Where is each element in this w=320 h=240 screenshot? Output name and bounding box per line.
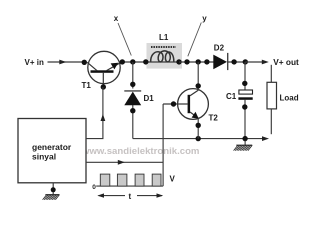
inductor L1	[146, 43, 182, 69]
svg-text:0: 0	[92, 184, 96, 191]
diode D1	[124, 91, 141, 105]
junction: T2 collector node on rail	[196, 59, 201, 64]
node y junction	[184, 59, 189, 64]
capacitor C1	[238, 90, 252, 100]
pulse 2	[117, 174, 127, 186]
junction: T2 emitter on rail	[196, 136, 201, 141]
transistor T2	[178, 62, 209, 139]
junction: C1/ground on rail	[242, 136, 247, 141]
wire: V+ in to input node (with arrow)	[48, 61, 85, 63]
pulse 1	[100, 174, 110, 186]
junction: C1 top	[242, 81, 247, 86]
ground symbol (output side)	[234, 140, 253, 151]
svg-text:x: x	[114, 14, 119, 23]
time axis with arrows and label t	[99, 195, 126, 197]
pulse 4	[152, 174, 161, 186]
wire: generator output 2 to T2 base line (with right arrow)	[86, 161, 163, 163]
wire: output node to V+ out arrow	[245, 61, 262, 63]
ground symbol (generator)	[43, 195, 60, 200]
junction: T1 collector node	[120, 59, 125, 64]
svg-text:V+ in: V+ in	[25, 58, 44, 67]
svg-text:Load: Load	[280, 94, 299, 103]
svg-text:D2: D2	[214, 44, 225, 53]
svg-text:T1: T1	[82, 81, 92, 90]
wire: L1 to D2	[179, 61, 214, 63]
junction: L1 right terminal	[176, 59, 181, 64]
wire: T2 base	[163, 103, 188, 105]
generator ground stub	[52, 183, 54, 195]
wire: C1 column	[244, 62, 246, 90]
junction: D2 anode terminal	[204, 59, 209, 64]
junction: D1 cathode terminal	[130, 82, 135, 87]
wire: T1 collector to L1	[122, 61, 146, 63]
generator box	[18, 119, 86, 183]
svg-text:C1: C1	[226, 92, 237, 101]
pulse 3	[135, 174, 144, 186]
junction: input node at T1 emitter	[82, 60, 87, 65]
svg-text:L1: L1	[159, 33, 169, 42]
junction: T2 base terminal	[171, 101, 176, 106]
svg-text:T2: T2	[209, 114, 219, 123]
svg-text:www.sandielektronik.com: www.sandielektronik.com	[81, 146, 199, 157]
svg-text:y: y	[202, 14, 207, 23]
junction after D2	[231, 59, 236, 64]
wire: D2 cathode to output node	[228, 61, 246, 63]
junction: L1 left terminal	[143, 59, 148, 64]
svg-text:V+ out: V+ out	[273, 57, 299, 67]
junction: D1 anode terminal	[130, 108, 135, 113]
bottom rail (ground bus) with arrow	[133, 138, 262, 140]
svg-text:generator: generator	[32, 142, 72, 152]
waveform baseline	[96, 185, 163, 187]
svg-text:sinyal: sinyal	[32, 152, 56, 162]
svg-text:D1: D1	[144, 94, 155, 103]
diode D2	[213, 53, 227, 70]
svg-text:t: t	[129, 192, 132, 201]
node x junction	[130, 59, 135, 64]
wire: T2 base drop to generator line	[162, 104, 164, 186]
diode D1 column wire from node x	[132, 62, 134, 89]
junction: output node	[243, 59, 248, 64]
transistor T1	[87, 51, 121, 89]
load resistor	[267, 65, 277, 134]
junction: C1 bottom	[242, 104, 247, 109]
svg-text:V: V	[170, 175, 176, 184]
wire: generator output 1 to T1 base (with up arrow)	[86, 87, 103, 139]
